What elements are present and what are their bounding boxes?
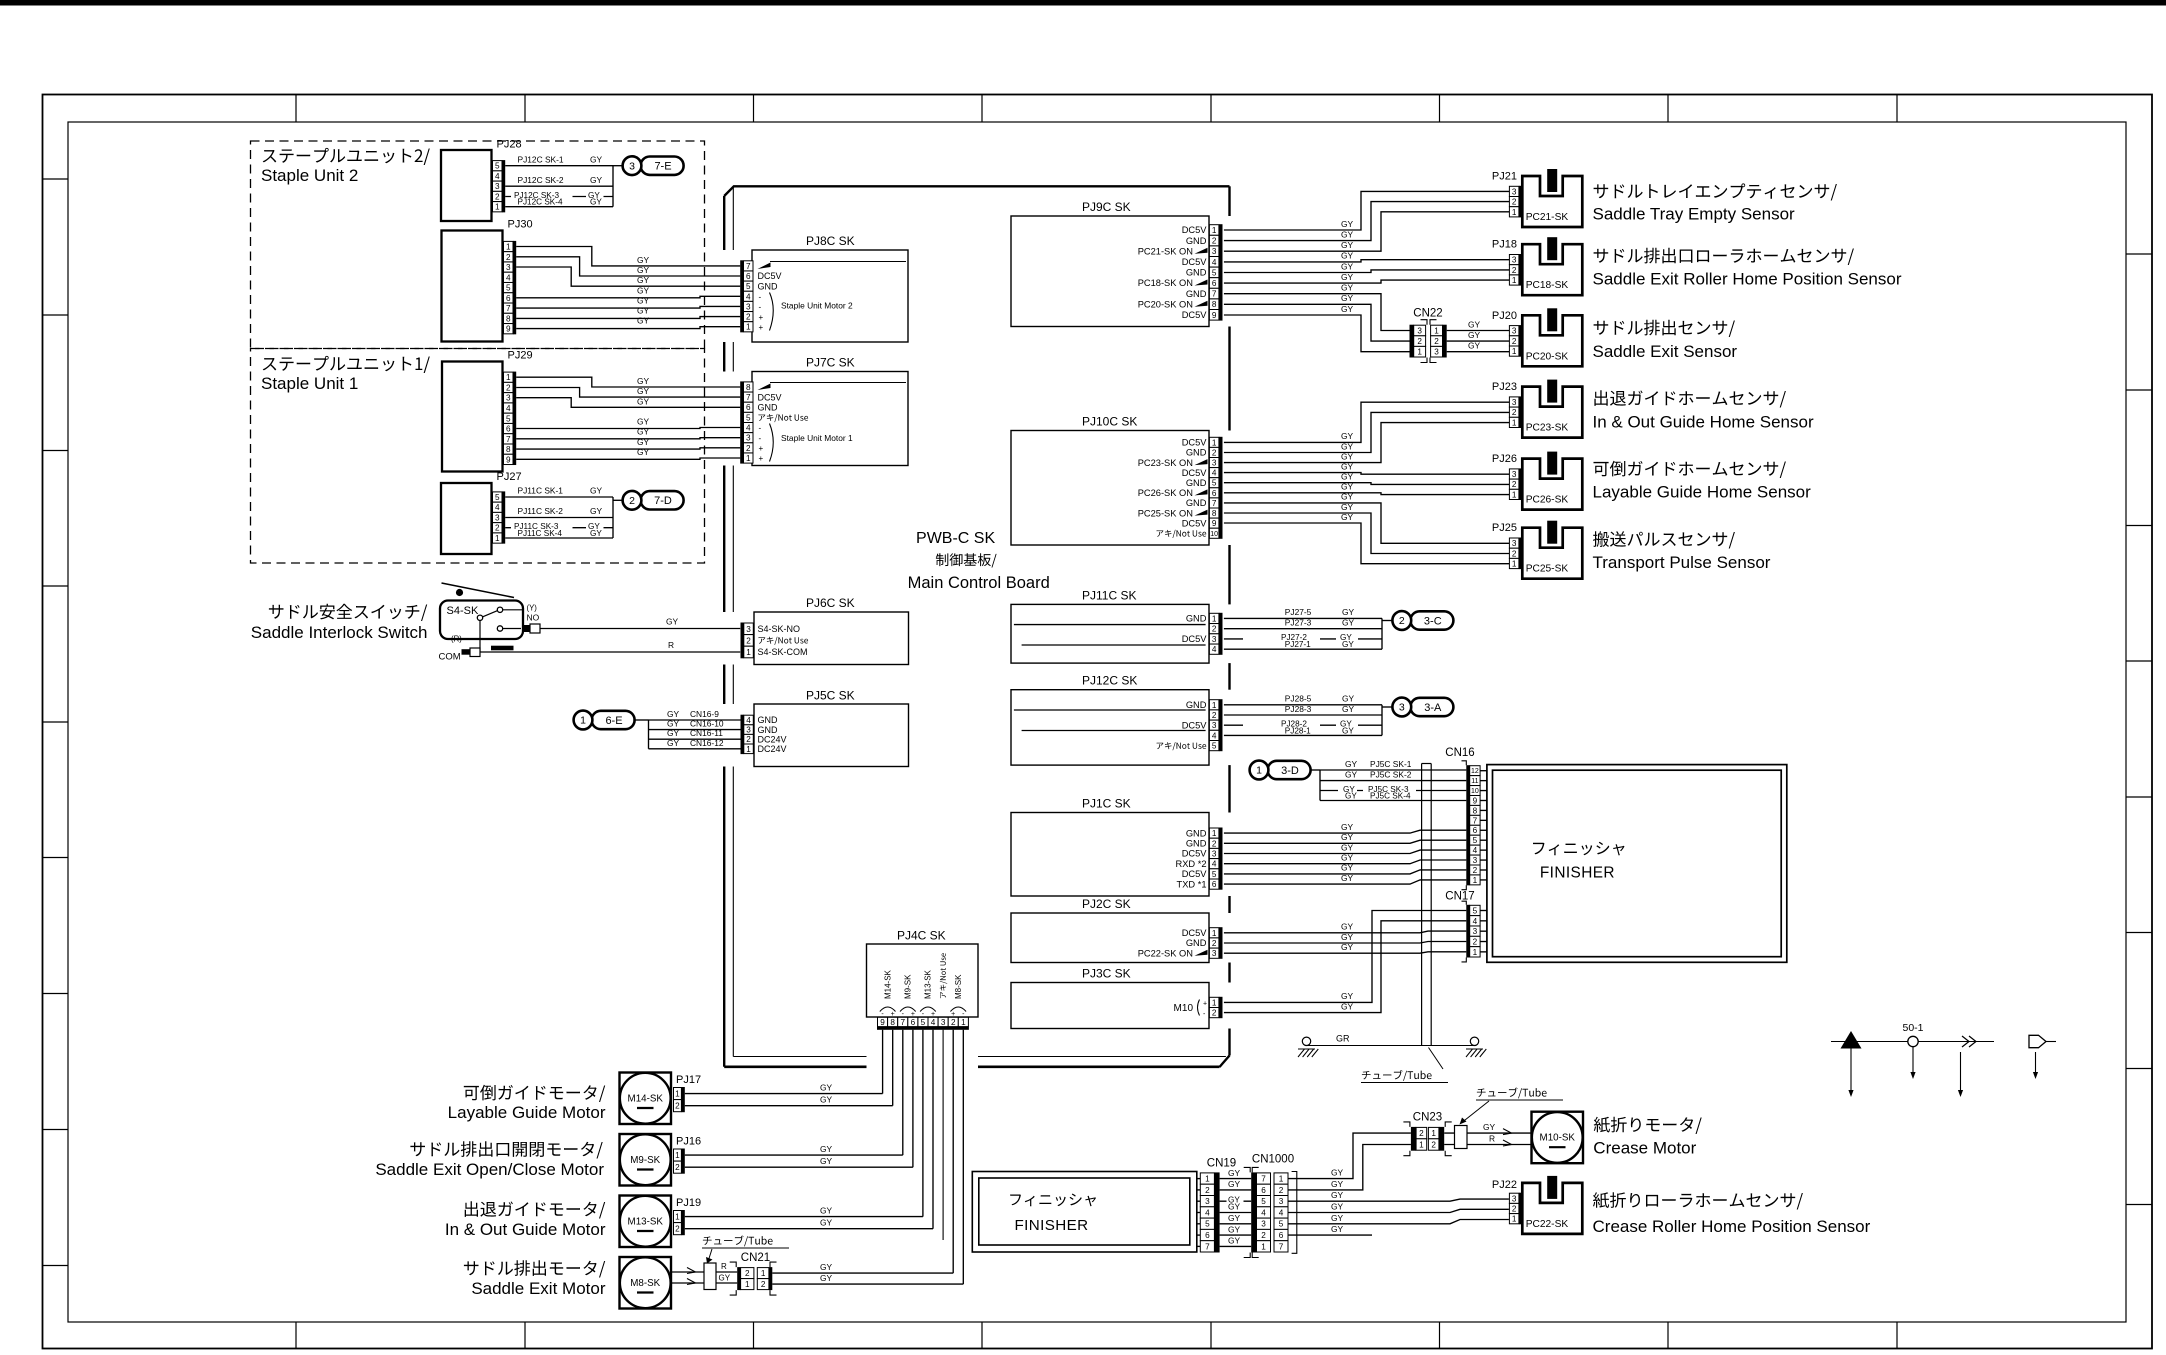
svg-text:+: +: [759, 444, 764, 453]
svg-text:(R): (R): [451, 635, 462, 644]
svg-text:6: 6: [506, 294, 511, 303]
svg-text:GY: GY: [1331, 1224, 1344, 1234]
svg-text:5: 5: [1473, 906, 1478, 915]
svg-text:GY: GY: [1341, 283, 1354, 293]
svg-text:GY: GY: [820, 1082, 833, 1092]
svg-text:3: 3: [495, 182, 500, 191]
svg-text:7: 7: [1261, 1175, 1266, 1184]
label Staple Unit 1: [261, 356, 430, 393]
wires PJ11C SK to reference 3-C: [1224, 607, 1393, 649]
svg-text:4: 4: [495, 172, 500, 181]
svg-text:2: 2: [1212, 1009, 1217, 1018]
label Saddle Exit Sensor: [1593, 320, 1738, 361]
svg-text:6: 6: [506, 425, 511, 434]
svg-text:1: 1: [495, 534, 500, 543]
svg-text:2: 2: [1212, 711, 1217, 720]
svg-text:1: 1: [1434, 326, 1439, 335]
svg-text:GY: GY: [637, 306, 650, 316]
svg-text:5: 5: [1212, 742, 1217, 751]
label Saddle Interlock Switch: [251, 604, 428, 642]
svg-text:3: 3: [746, 625, 751, 634]
svg-text:5: 5: [1205, 1220, 1210, 1229]
svg-text:PJ2C SK: PJ2C SK: [1082, 897, 1131, 911]
svg-text:PJ3C SK: PJ3C SK: [1082, 967, 1131, 981]
board outline PWB-C SK (top and right edges): [724, 186, 1229, 1067]
svg-text:2: 2: [1512, 1204, 1517, 1213]
wires reference 3-D to CN16: [1310, 759, 1466, 801]
svg-text:GY: GY: [1341, 272, 1354, 282]
svg-text:2: 2: [761, 1280, 766, 1289]
svg-text:S4-SK-NO: S4-SK-NO: [758, 624, 801, 634]
svg-text:GY: GY: [637, 285, 650, 295]
svg-text:GY: GY: [637, 437, 650, 447]
svg-text:3: 3: [1512, 398, 1517, 407]
svg-text:4: 4: [1205, 1208, 1210, 1217]
off-page reference bubble 1 / 3-D: [1250, 761, 1311, 780]
svg-text:CN23: CN23: [1413, 1112, 1442, 1124]
svg-text:8: 8: [890, 1018, 895, 1027]
svg-text:PC18-SK: PC18-SK: [1526, 280, 1569, 291]
svg-text:2: 2: [495, 192, 500, 201]
svg-text:2: 2: [1212, 237, 1217, 246]
wire PJ4C pin 3 not used stub: [942, 1030, 944, 1240]
label Staple Unit 2: [261, 148, 430, 185]
svg-text:FINISHER: FINISHER: [1540, 865, 1615, 882]
svg-text:9: 9: [1212, 519, 1217, 528]
block FINISHER (lower): [972, 1172, 1197, 1253]
svg-text:2: 2: [675, 1225, 680, 1234]
svg-text:2: 2: [1205, 1186, 1210, 1195]
svg-text:GY: GY: [1341, 304, 1354, 314]
svg-text:GND: GND: [1186, 268, 1207, 278]
svg-text:3: 3: [1473, 856, 1478, 865]
board outline PWB-C SK (left and bottom edges): [724, 186, 1226, 1067]
svg-text:GY: GY: [590, 506, 603, 516]
svg-text:GND: GND: [1186, 938, 1207, 948]
svg-text:GY: GY: [1345, 759, 1358, 769]
svg-text:4: 4: [1212, 860, 1217, 869]
svg-text:8: 8: [746, 383, 751, 392]
svg-text:PJ22: PJ22: [1492, 1179, 1517, 1191]
connector PJ30 (Staple Unit 2): [442, 219, 533, 342]
svg-text:GND: GND: [1186, 839, 1207, 849]
svg-text:10: 10: [1210, 531, 1218, 538]
sensor connector PJ18 / PC18-SK: [1492, 237, 1582, 295]
svg-text:2: 2: [1417, 337, 1422, 346]
svg-text:GY: GY: [637, 295, 650, 305]
svg-text:7: 7: [746, 393, 751, 402]
svg-text:GY: GY: [1341, 261, 1354, 271]
motor M13-SK (In & Out Guide Motor): [620, 1196, 672, 1248]
svg-text:2: 2: [746, 313, 751, 322]
legend continuation symbols 50-1: [1831, 1022, 2056, 1097]
svg-text:2: 2: [1261, 1231, 1266, 1240]
svg-text:9: 9: [1473, 796, 1478, 805]
svg-text:1: 1: [1512, 208, 1517, 217]
svg-text:+: +: [1203, 1000, 1207, 1007]
board connector PJ6C SK: [741, 596, 909, 665]
svg-text:PC26-SK ON: PC26-SK ON: [1138, 488, 1193, 498]
svg-text:3: 3: [1261, 1220, 1266, 1229]
svg-text:3: 3: [1279, 1197, 1284, 1206]
svg-text:PJ26: PJ26: [1492, 453, 1517, 465]
svg-text:1: 1: [1212, 998, 1217, 1007]
svg-text:GY: GY: [1331, 1213, 1344, 1223]
svg-text:5: 5: [1212, 870, 1217, 879]
svg-text:1: 1: [746, 454, 751, 463]
svg-text:Saddle Exit Open/Close Motor: Saddle Exit Open/Close Motor: [375, 1160, 604, 1179]
svg-text:GND: GND: [758, 281, 779, 291]
svg-text:GY: GY: [637, 396, 650, 406]
svg-text:+: +: [759, 454, 764, 463]
svg-text:2: 2: [1212, 839, 1217, 848]
svg-text:Staple Unit 1: Staple Unit 1: [261, 374, 358, 393]
label Layable Guide Motor: [448, 1085, 606, 1122]
svg-text:GY: GY: [1342, 726, 1354, 735]
wires PJ10C SK to PJ23 PJ26 PJ25: [1224, 402, 1510, 564]
svg-text:1: 1: [746, 323, 751, 332]
svg-text:3: 3: [1417, 326, 1422, 335]
svg-text:PJ7C SK: PJ7C SK: [806, 356, 855, 370]
board connector PJ5C SK: [741, 689, 909, 767]
svg-text:GY: GY: [1341, 922, 1354, 932]
svg-text:GY: GY: [637, 447, 650, 457]
svg-text:PC21-SK: PC21-SK: [1526, 212, 1569, 223]
wires CN22 to PJ20: [1447, 319, 1510, 351]
svg-text:5: 5: [1279, 1220, 1284, 1229]
svg-text:3: 3: [1512, 187, 1517, 196]
svg-text:4: 4: [1473, 917, 1478, 926]
svg-text:GND: GND: [1186, 828, 1207, 838]
svg-text:GY: GY: [820, 1144, 833, 1154]
svg-text:PJ28-5: PJ28-5: [1285, 694, 1312, 704]
svg-text:S4-SK-COM: S4-SK-COM: [758, 647, 808, 657]
svg-text:2: 2: [1279, 1186, 1284, 1195]
svg-text:1: 1: [675, 1213, 680, 1222]
label Saddle Exit Open/Close Motor: [375, 1141, 604, 1179]
off-page reference bubble 3 / 3-A: [1392, 698, 1453, 717]
svg-text:1: 1: [675, 1090, 680, 1099]
svg-text:GY: GY: [667, 728, 680, 738]
svg-text:GY: GY: [1341, 451, 1354, 461]
board connector PJ1C SK: [1011, 797, 1223, 897]
svg-text:COM: COM: [439, 652, 461, 663]
svg-text:In & Out Guide Home Sensor: In & Out Guide Home Sensor: [1593, 413, 1814, 432]
svg-text:9: 9: [880, 1018, 885, 1027]
svg-text:3: 3: [506, 263, 511, 272]
wire GR (ground link): [1307, 1034, 1475, 1046]
svg-text:GND: GND: [1186, 478, 1207, 488]
svg-text:GY: GY: [1342, 694, 1355, 704]
svg-text:7: 7: [1212, 290, 1217, 299]
svg-text:M10: M10: [1174, 1003, 1194, 1014]
svg-text:1: 1: [1205, 1175, 1210, 1184]
svg-text:GY: GY: [1341, 472, 1354, 482]
svg-text:2: 2: [746, 444, 751, 453]
svg-text:GY: GY: [1345, 769, 1358, 779]
svg-text:6: 6: [1473, 826, 1478, 835]
svg-text:8: 8: [506, 314, 511, 323]
svg-text:PJ29: PJ29: [508, 350, 533, 362]
svg-text:PC25-SK ON: PC25-SK ON: [1138, 508, 1193, 518]
svg-text:2: 2: [1512, 549, 1517, 558]
svg-text:DC5V: DC5V: [1182, 720, 1208, 730]
svg-text:GY: GY: [1341, 942, 1354, 952]
svg-text:6: 6: [1261, 1186, 1266, 1195]
svg-text:GY: GY: [1341, 502, 1354, 512]
sensor connector PJ22 / PC22-SK: [1492, 1176, 1582, 1234]
wires PJ12C SK to reference 3-A: [1224, 694, 1393, 736]
wires PJ1C SK to CN16: [1224, 822, 1466, 884]
label PWB-C SK Main Control Board: [908, 530, 1050, 592]
svg-text:2: 2: [1212, 625, 1217, 634]
label Crease Roller Home Position Sensor: [1593, 1192, 1871, 1236]
svg-text:NO: NO: [527, 613, 540, 623]
svg-text:8: 8: [1212, 509, 1217, 518]
svg-text:PC20-SK ON: PC20-SK ON: [1138, 299, 1193, 309]
svg-text:GY: GY: [1342, 618, 1355, 628]
svg-text:4: 4: [1261, 1208, 1266, 1217]
svg-text:PWB-C SK: PWB-C SK: [916, 530, 995, 547]
svg-text:2: 2: [1512, 337, 1517, 346]
svg-text:PJ12C SK-4: PJ12C SK-4: [518, 198, 563, 207]
svg-text:3: 3: [1205, 1197, 1210, 1206]
wires PJ3C SK M10 to CN17: [1224, 911, 1466, 1013]
wires M8-SK through tube to CN21: [671, 1262, 737, 1290]
sensor connector PJ20 / PC20-SK: [1492, 308, 1582, 366]
svg-text:GY: GY: [1468, 330, 1481, 340]
board connector PJ7C SK with Staple Unit Motor 1 pins: [740, 356, 908, 466]
svg-text:GY: GY: [719, 1274, 731, 1283]
svg-text:GY: GY: [1341, 822, 1354, 832]
svg-text:GY: GY: [637, 417, 650, 427]
svg-text:GY: GY: [590, 529, 602, 538]
svg-text:1: 1: [580, 715, 586, 727]
svg-text:GY: GY: [820, 1205, 833, 1215]
svg-text:GY: GY: [1341, 842, 1354, 852]
svg-text:PJ27-5: PJ27-5: [1285, 607, 1312, 617]
svg-text:GY: GY: [1342, 640, 1354, 649]
wires PJ19 to PJ4C pins 5-4: [685, 1030, 933, 1229]
label In & Out Guide Home Sensor: [1593, 390, 1814, 431]
svg-text:-: -: [759, 434, 762, 443]
svg-text:PJ11C SK: PJ11C SK: [1082, 589, 1136, 603]
svg-text:6: 6: [1212, 489, 1217, 498]
wires PJ29 to PJ7C SK: [516, 376, 740, 459]
svg-text:3: 3: [1512, 470, 1517, 479]
svg-text:2: 2: [745, 1269, 750, 1278]
svg-text:GND: GND: [1186, 614, 1207, 624]
motor M8-SK (Saddle Exit Motor): [620, 1257, 672, 1309]
svg-text:6: 6: [1212, 880, 1217, 889]
dashed enclosure Staple Unit 2 / Staple Unit 1: [251, 141, 705, 563]
svg-text:GY: GY: [1341, 229, 1354, 239]
svg-text:-: -: [759, 293, 762, 302]
wires PJ28 pins 5/3/2/1 to reference 7-E: [505, 154, 622, 206]
svg-text:5: 5: [495, 493, 500, 502]
svg-text:Layable Guide Motor: Layable Guide Motor: [448, 1103, 606, 1122]
svg-text:GND: GND: [1186, 289, 1207, 299]
svg-text:-: -: [759, 303, 762, 312]
svg-text:+: +: [759, 323, 764, 332]
inline connector pair CN22: [1410, 308, 1447, 363]
svg-text:2: 2: [1512, 480, 1517, 489]
svg-text:Staple Unit Motor 2: Staple Unit Motor 2: [781, 301, 853, 311]
svg-text:4: 4: [506, 404, 511, 413]
svg-text:GY: GY: [1483, 1122, 1496, 1132]
svg-text:+: +: [759, 313, 764, 322]
wires CN19 to CN1000: [1220, 1168, 1252, 1247]
svg-text:8: 8: [1473, 806, 1478, 815]
label Transport Pulse Sensor: [1593, 531, 1771, 572]
svg-text:GY: GY: [1331, 1168, 1344, 1178]
svg-text:4: 4: [1212, 469, 1217, 478]
wires PJ27 pins 5/3/2/1 to reference 7-D: [505, 486, 622, 538]
board connector PJ8C SK with Staple Unit Motor 2 pins: [740, 234, 908, 342]
svg-text:3: 3: [1399, 702, 1405, 714]
svg-text:PJ27-1: PJ27-1: [1285, 640, 1311, 649]
svg-text:Staple Unit Motor 1: Staple Unit Motor 1: [781, 433, 853, 443]
svg-text:FINISHER: FINISHER: [1014, 1217, 1088, 1234]
svg-text:Main Control Board: Main Control Board: [908, 574, 1050, 592]
svg-text:GY: GY: [820, 1156, 833, 1166]
svg-text:7: 7: [900, 1018, 905, 1027]
svg-text:7: 7: [506, 304, 511, 313]
svg-text:4: 4: [746, 716, 751, 725]
svg-text:GY: GY: [820, 1262, 833, 1272]
svg-text:1: 1: [506, 242, 511, 251]
svg-text:3: 3: [1212, 949, 1217, 958]
svg-text:50-1: 50-1: [1902, 1022, 1923, 1034]
motor M10-SK (Crease Motor): [1532, 1112, 1584, 1164]
svg-text:DC5V: DC5V: [1182, 928, 1208, 938]
wires CN21 to PJ4C pins 2-1: [772, 1030, 963, 1284]
svg-text:3: 3: [629, 160, 635, 172]
svg-text:5: 5: [1261, 1197, 1266, 1206]
svg-text:PJ8C SK: PJ8C SK: [806, 234, 855, 248]
svg-text:3: 3: [1212, 247, 1217, 256]
svg-text:GY: GY: [1341, 832, 1354, 842]
svg-text:Saddle Exit Motor: Saddle Exit Motor: [471, 1279, 606, 1298]
connector PJ28 (Staple Unit 2): [441, 139, 522, 222]
inline connector pair CN23: [1403, 1112, 1451, 1156]
board connector PJ11C SK: [1011, 589, 1223, 664]
svg-text:GND: GND: [1186, 498, 1207, 508]
motor M9-SK (Saddle Exit Open/Close Motor): [620, 1134, 672, 1186]
svg-text:3: 3: [746, 434, 751, 443]
svg-text:PJ27-3: PJ27-3: [1285, 618, 1312, 628]
svg-text:8: 8: [506, 445, 511, 454]
sensor connector PJ23 / PC23-SK: [1492, 380, 1582, 438]
svg-text:GY: GY: [637, 265, 650, 275]
svg-text:GND: GND: [758, 715, 779, 725]
svg-text:3-C: 3-C: [1424, 615, 1442, 627]
svg-text:DC5V: DC5V: [1182, 438, 1208, 448]
svg-text:2: 2: [675, 1102, 680, 1111]
svg-text:PJ1C SK: PJ1C SK: [1082, 797, 1131, 811]
svg-text:R: R: [668, 640, 674, 650]
svg-text:DC24V: DC24V: [758, 744, 787, 754]
svg-text:PC20-SK: PC20-SK: [1526, 351, 1569, 362]
label Saddle Tray Empty Sensor: [1593, 183, 1837, 223]
svg-text:5: 5: [506, 414, 511, 423]
wires PJ9C SK to PJ21 PJ18 CN22: [1224, 191, 1510, 351]
svg-text:GY: GY: [1331, 1190, 1344, 1200]
svg-text:2: 2: [1473, 866, 1478, 875]
svg-text:Saddle Exit Roller Home Positi: Saddle Exit Roller Home Position Sensor: [1593, 270, 1902, 289]
svg-text:2: 2: [1512, 408, 1517, 417]
svg-text:PJ28-3: PJ28-3: [1285, 704, 1312, 714]
label Saddle Exit Motor: [464, 1260, 606, 1298]
svg-text:GY: GY: [637, 386, 650, 396]
connector PJ16 on M9-SK: [674, 1136, 702, 1174]
svg-text:12: 12: [1471, 768, 1479, 775]
svg-text:Layable Guide Home Sensor: Layable Guide Home Sensor: [1593, 483, 1812, 502]
board connector PJ3C SK (M10 output): [1011, 967, 1223, 1029]
svg-text:M9-SK: M9-SK: [630, 1155, 660, 1166]
svg-text:1: 1: [1512, 559, 1517, 568]
svg-text:GND: GND: [1186, 700, 1207, 710]
svg-text:GY: GY: [1341, 219, 1354, 229]
svg-text:GY: GY: [590, 154, 603, 164]
svg-text:GY: GY: [667, 709, 680, 719]
wires PJ17 to PJ4C pins 9-8: [685, 1030, 893, 1106]
svg-text:2: 2: [746, 735, 751, 744]
inline connector pair CN21: [730, 1252, 777, 1295]
svg-text:5: 5: [1212, 268, 1217, 277]
svg-text:6-E: 6-E: [605, 715, 622, 727]
svg-text:GY: GY: [1342, 607, 1355, 617]
svg-text:2: 2: [675, 1163, 680, 1172]
svg-text:R: R: [721, 1262, 727, 1271]
svg-text:GY: GY: [637, 316, 650, 326]
board connector PJ4C SK with motor pin assignments: [867, 929, 979, 1030]
svg-text:CN21: CN21: [741, 1252, 770, 1264]
svg-text:DC5V: DC5V: [1182, 225, 1208, 235]
sensor connector PJ25 / PC25-SK: [1492, 521, 1582, 579]
svg-text:7: 7: [506, 435, 511, 444]
svg-text:2: 2: [629, 495, 635, 507]
svg-text:1: 1: [1212, 829, 1217, 838]
wires CN1000 to CN23 and PJ22: [1288, 1133, 1509, 1235]
svg-text:3: 3: [1512, 256, 1517, 265]
svg-text:PJ12C SK-1: PJ12C SK-1: [518, 154, 564, 164]
svg-text:6: 6: [746, 403, 751, 412]
svg-text:1: 1: [961, 1018, 966, 1027]
svg-text:GY: GY: [1331, 1202, 1344, 1212]
svg-text:4: 4: [746, 424, 751, 433]
svg-text:GY: GY: [1228, 1179, 1241, 1189]
svg-text:PC21-SK ON: PC21-SK ON: [1138, 246, 1193, 256]
svg-text:GND: GND: [1186, 448, 1207, 458]
wires PJ16 to PJ4C pins 7-6: [685, 1030, 913, 1167]
svg-text:2: 2: [1434, 337, 1439, 346]
svg-text:GY: GY: [1341, 1001, 1354, 1011]
svg-text:GY: GY: [1341, 853, 1354, 863]
off-page reference bubble 2 / 7-D: [623, 491, 684, 510]
connector CN16 (finisher): [1445, 747, 1487, 890]
svg-text:GY: GY: [1341, 240, 1354, 250]
svg-text:11: 11: [1471, 778, 1478, 785]
svg-text:4: 4: [1473, 846, 1478, 855]
switch S4-SK (Saddle Interlock Switch): [439, 583, 541, 663]
svg-text:PJ9C SK: PJ9C SK: [1082, 200, 1131, 214]
svg-text:3-A: 3-A: [1424, 702, 1442, 714]
svg-text:10: 10: [1471, 788, 1479, 795]
board connector PJ2C SK: [1011, 897, 1223, 963]
svg-text:1: 1: [1417, 348, 1422, 357]
svg-text:PJ12C SK-2: PJ12C SK-2: [518, 175, 564, 185]
